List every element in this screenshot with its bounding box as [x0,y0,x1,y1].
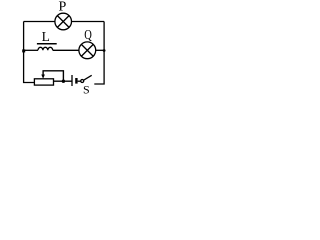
svg-text:P: P [59,0,67,15]
svg-text:S: S [83,82,90,96]
svg-text:Q: Q [84,27,92,43]
svg-text:L: L [42,29,50,44]
